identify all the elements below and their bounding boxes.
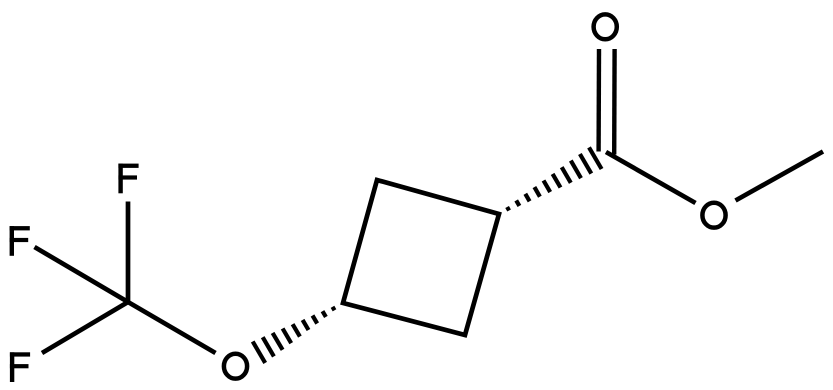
bond CF3 carbon to top fluorine — [126, 202, 131, 303]
bond carbonyl carbon to ester oxygen — [606, 152, 696, 203]
atom label F top fluorine — [118, 164, 138, 194]
bond ether oxygen to CF3 carbon — [128, 302, 216, 353]
atom label O ether oxygen — [224, 354, 247, 379]
atom label F left fluorine — [10, 226, 30, 256]
hashed wedge bond C1 to carbonyl carbon — [507, 147, 601, 210]
bond CF3 carbon to left fluorine — [35, 247, 129, 302]
atom label O carbonyl oxygen — [594, 14, 617, 39]
C=O double bond, carbonyl carbon to oxygen — [599, 49, 615, 155]
hashed wedge bond C3 to ether oxygen — [253, 307, 335, 363]
bond CF3 carbon to bottom fluorine — [42, 302, 128, 353]
atom label O ester oxygen — [702, 203, 725, 228]
cyclobutane ring C1-C2-C3-C4 — [343, 180, 499, 335]
atom label F bottom fluorine — [10, 352, 30, 382]
bond ester oxygen to methyl carbon — [736, 152, 824, 201]
